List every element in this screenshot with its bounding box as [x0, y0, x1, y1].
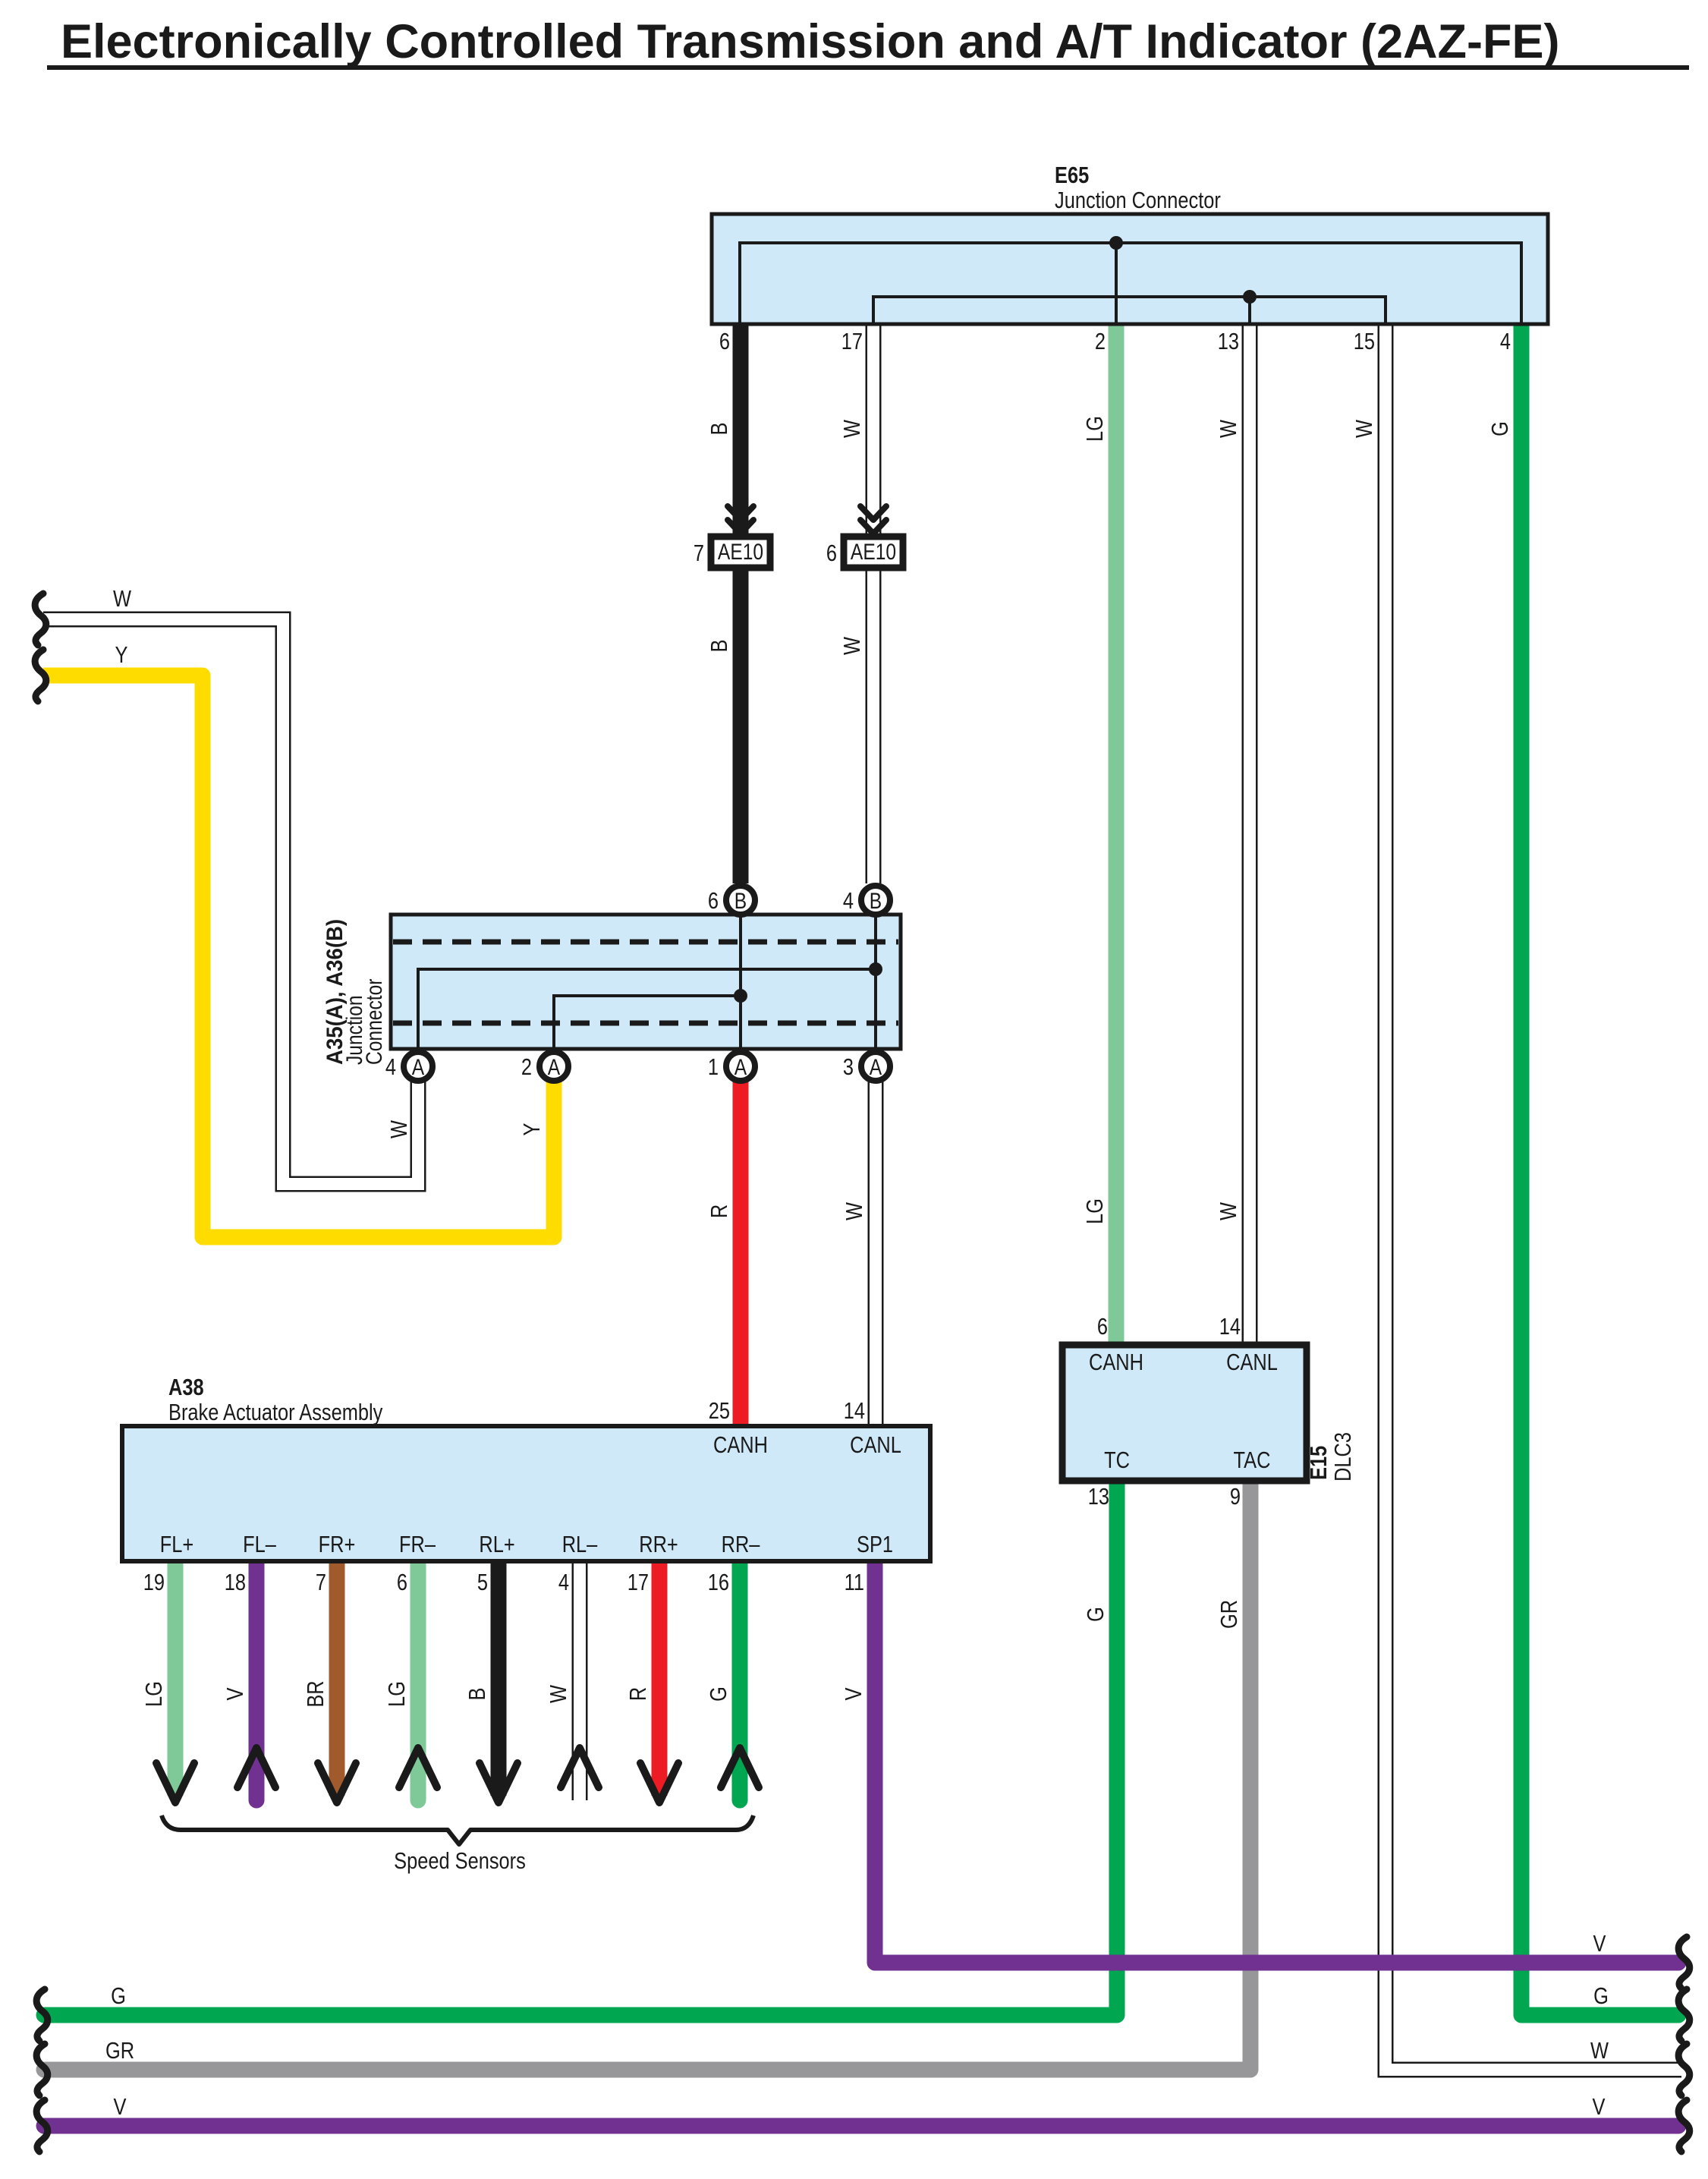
svg-text:3: 3 [843, 1054, 854, 1081]
svg-text:W: W [841, 1202, 868, 1220]
svg-text:2: 2 [521, 1054, 532, 1081]
svg-text:11: 11 [845, 1570, 864, 1596]
break squiggle on W wire left end [35, 594, 46, 645]
svg-text:13: 13 [1218, 329, 1239, 355]
svg-text:17: 17 [628, 1570, 649, 1596]
svg-text:1: 1 [708, 1054, 719, 1081]
svg-text:4: 4 [1500, 329, 1511, 355]
svg-text:17: 17 [841, 329, 863, 355]
svg-text:A: A [734, 1054, 747, 1080]
break squiggle on G bus left end [36, 1989, 48, 2041]
E65 internal bus 2 (pins 17-13-15) [873, 297, 1386, 324]
svg-text:A: A [870, 1054, 882, 1080]
svg-text:Electronically Controlled Tran: Electronically Controlled Transmission a… [61, 15, 1559, 68]
svg-text:RR+: RR+ [639, 1532, 678, 1558]
svg-text:W: W [386, 1120, 413, 1138]
wire LG from A38 pin 19 FL+ to speed sensor [168, 1561, 184, 1796]
junction connector E65 box [712, 214, 1548, 324]
wire V from A38 pin 18 FL- to speed sensor [249, 1561, 265, 1800]
svg-text:G: G [706, 1686, 732, 1702]
svg-text:RL–: RL– [562, 1532, 598, 1558]
pin circle A (4) on A35 bottom [404, 1052, 433, 1081]
svg-text:A: A [548, 1054, 561, 1080]
wire W from A38 pin 4 RL- to speed sensor [572, 1561, 588, 1800]
svg-text:B: B [464, 1688, 491, 1701]
DLC3 E15 box [1062, 1345, 1307, 1481]
harness arrows into AE10 on wire B [728, 506, 753, 534]
svg-text:LG: LG [1082, 416, 1109, 442]
A35 internal bus 2A-1A [554, 996, 741, 1049]
A35 lower dashed separator [393, 1021, 898, 1026]
svg-text:5: 5 [477, 1570, 488, 1596]
arrow down on RL+ wire [480, 1763, 517, 1803]
harness arrows into AE10 on wire W [860, 506, 886, 534]
title underline [47, 65, 1689, 70]
svg-text:7: 7 [316, 1570, 326, 1596]
svg-text:RR–: RR– [722, 1532, 760, 1558]
svg-text:G: G [1487, 421, 1514, 436]
svg-text:Speed Sensors: Speed Sensors [394, 1848, 526, 1875]
svg-text:FR–: FR– [399, 1532, 436, 1558]
svg-text:LG: LG [1082, 1198, 1109, 1224]
speed sensors brace [162, 1815, 753, 1844]
svg-text:4: 4 [558, 1570, 569, 1596]
E65 internal bus 1 (pins 6-2-4) [740, 243, 1521, 324]
svg-text:A38: A38 [168, 1374, 204, 1401]
svg-text:AE10: AE10 [851, 539, 896, 565]
pin circle A (3) on A35 bottom [861, 1052, 890, 1081]
break squiggle on V bottom bus right end [1678, 2100, 1690, 2152]
svg-text:2: 2 [1095, 329, 1106, 355]
svg-text:GR: GR [105, 2038, 134, 2064]
svg-text:Y: Y [519, 1123, 546, 1135]
svg-text:E65: E65 [1055, 162, 1089, 189]
break squiggle on V bottom bus left end [36, 2100, 48, 2152]
wire V bottom bus from left edge to right edge [44, 2118, 1678, 2134]
svg-text:FL+: FL+ [160, 1532, 193, 1558]
arrow up on RL- wire [561, 1748, 599, 1787]
svg-text:Connector: Connector [361, 979, 387, 1065]
svg-text:V: V [1593, 2094, 1606, 2121]
svg-text:V: V [222, 1687, 249, 1700]
svg-text:A: A [412, 1054, 425, 1080]
wire W from E65 pin 17 to AE10 to A35 pin 4B [866, 324, 882, 883]
junction connector A35(A)/A36(B) box [391, 915, 901, 1049]
connector AE10 (pin 7) on wire B [711, 537, 770, 568]
svg-text:B: B [870, 888, 882, 914]
svg-text:FR+: FR+ [319, 1532, 356, 1558]
svg-text:Y: Y [115, 642, 128, 669]
svg-text:FL–: FL– [243, 1532, 276, 1558]
wire R from A38 pin 17 RR+ to speed sensor [652, 1561, 668, 1796]
arrow down on FR+ wire [318, 1763, 356, 1803]
wire B from A38 pin 5 RL+ to speed sensor [491, 1561, 507, 1796]
svg-text:CANH: CANH [1089, 1349, 1143, 1376]
svg-text:Brake Actuator Assembly: Brake Actuator Assembly [168, 1400, 383, 1426]
arrow up on RR- wire [721, 1748, 759, 1787]
svg-text:R: R [625, 1687, 652, 1701]
svg-text:W: W [546, 1685, 572, 1703]
arrow up on FR- wire [399, 1748, 437, 1787]
wire Y from left edge to A35 pin 2A [43, 675, 554, 1237]
wire W from E65 pin 15 to right edge [1386, 324, 1681, 2070]
break squiggle on GR bus left end [36, 2044, 48, 2096]
svg-text:B: B [706, 640, 733, 653]
svg-text:G: G [111, 1983, 126, 2010]
svg-text:B: B [706, 423, 733, 436]
svg-text:14: 14 [1219, 1314, 1241, 1340]
A35 internal wire from 4B down [874, 915, 877, 1049]
svg-text:25: 25 [709, 1398, 730, 1425]
wire W from A35 pin 3A to A38 pin 14 [868, 1081, 884, 1426]
pin circle B (6) on A35 top [726, 886, 755, 915]
svg-text:4: 4 [385, 1054, 396, 1081]
svg-text:CANH: CANH [713, 1432, 768, 1459]
wire G from DLC3 pin 13 TC to left edge [44, 1481, 1117, 2015]
arrow down on RR+ wire [640, 1763, 678, 1803]
wire LG from E65 pin 2 to DLC3 CANH pin 6 [1109, 324, 1125, 1345]
svg-text:AE10: AE10 [718, 539, 763, 565]
pin circle A (1) on A35 bottom [726, 1052, 755, 1081]
svg-text:TAC: TAC [1234, 1447, 1271, 1474]
svg-text:CANL: CANL [1226, 1349, 1278, 1376]
svg-text:V: V [114, 2094, 127, 2121]
svg-text:TC: TC [1104, 1447, 1130, 1474]
svg-text:4: 4 [843, 888, 854, 915]
pin circle A (2) on A35 bottom [539, 1052, 568, 1081]
svg-text:R: R [706, 1204, 733, 1218]
svg-text:13: 13 [1088, 1484, 1109, 1510]
svg-text:LG: LG [384, 1681, 410, 1707]
svg-text:G: G [1083, 1607, 1109, 1622]
node on E65 bus 2 at pin 13 [1243, 290, 1257, 304]
node on E65 bus 1 at pin 2 [1109, 236, 1123, 250]
svg-text:9: 9 [1230, 1484, 1241, 1510]
svg-text:W: W [1216, 420, 1242, 438]
svg-text:6: 6 [719, 329, 730, 355]
svg-text:E15: E15 [1306, 1446, 1332, 1480]
svg-text:15: 15 [1354, 329, 1375, 355]
E65 bus 1 tap to pin 2 [1115, 243, 1118, 324]
svg-text:W: W [1216, 1202, 1242, 1220]
svg-text:6: 6 [708, 888, 719, 915]
svg-text:V: V [1593, 1931, 1606, 1957]
break squiggle on W bus right end [1678, 2044, 1690, 2096]
svg-text:W: W [839, 637, 866, 655]
svg-text:CANL: CANL [850, 1432, 901, 1459]
svg-text:GR: GR [1216, 1600, 1243, 1629]
svg-text:16: 16 [708, 1570, 729, 1596]
wire W from E65 pin 13 to DLC3 CANL pin 14 [1242, 324, 1258, 1345]
svg-text:W: W [1590, 2038, 1609, 2064]
svg-text:Junction Connector: Junction Connector [1055, 187, 1221, 214]
svg-text:G: G [1593, 1983, 1609, 2010]
svg-text:SP1: SP1 [857, 1532, 893, 1558]
svg-text:18: 18 [225, 1570, 246, 1596]
svg-text:6: 6 [826, 540, 837, 567]
wire R from A35 pin 1A to A38 pin 25 [733, 1081, 749, 1426]
svg-text:RL+: RL+ [479, 1532, 514, 1558]
brake actuator assembly A38 box [122, 1426, 930, 1561]
wire V from A38 pin 11 SP1 to right edge [875, 1561, 1678, 1963]
svg-text:BR: BR [303, 1680, 329, 1707]
arrow down on FL+ wire [156, 1763, 194, 1803]
break squiggle on Y wire left end [35, 650, 46, 701]
wire G from E65 pin 4 to right edge [1521, 324, 1678, 2015]
wire LG from A38 pin 6 FR- to speed sensor [410, 1561, 426, 1800]
svg-text:B: B [734, 888, 747, 914]
wire G from A38 pin 16 RR- to speed sensor [732, 1561, 748, 1800]
svg-text:6: 6 [397, 1570, 407, 1596]
svg-text:19: 19 [143, 1570, 165, 1596]
svg-text:14: 14 [844, 1398, 865, 1425]
svg-text:DLC3: DLC3 [1330, 1432, 1357, 1482]
svg-text:W: W [1351, 420, 1378, 438]
node on A35 bus at 1A line [734, 989, 747, 1003]
arrow up on FL- wire [237, 1748, 275, 1787]
break squiggle on G bus right end [1678, 1989, 1690, 2041]
wire W from left edge to A35 pin 4A [43, 619, 418, 1184]
A35 internal wire from 6B to 1A [739, 915, 742, 1049]
svg-text:LG: LG [141, 1681, 168, 1707]
svg-text:W: W [839, 420, 866, 438]
svg-text:V: V [841, 1687, 867, 1700]
wire B from E65 pin 6 to AE10 to A35 pin 6B [733, 324, 749, 883]
wire BR from A38 pin 7 FR+ to speed sensor [329, 1561, 345, 1796]
wire GR from DLC3 pin 9 TAC to left edge [44, 1481, 1250, 2070]
svg-text:7: 7 [694, 540, 704, 567]
break squiggle on V bus right end [1678, 1937, 1690, 1988]
svg-text:6: 6 [1097, 1314, 1108, 1340]
node on A35 bus at 4B line [869, 962, 882, 976]
E65 bus 2 tap to pin 13 [1248, 297, 1251, 324]
A35 upper dashed separator [393, 940, 898, 945]
connector AE10 (pin 6) on wire W [844, 537, 903, 568]
svg-text:W: W [113, 586, 131, 612]
A35 internal bus 4A-4B [418, 969, 876, 1049]
pin circle B (4) on A35 top [861, 886, 890, 915]
